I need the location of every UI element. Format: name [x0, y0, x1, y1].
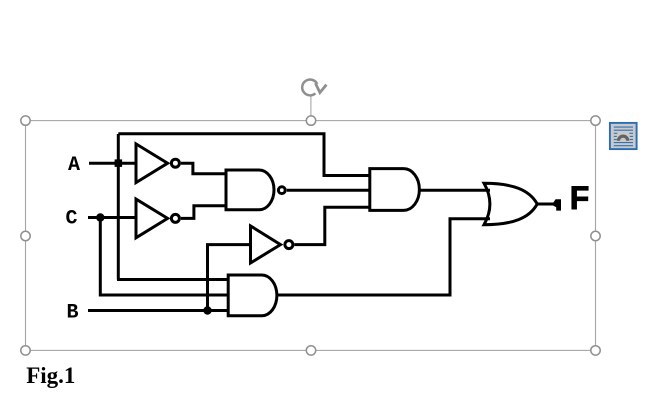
wire B branch to inverter U4 [208, 245, 252, 311]
selection handle top-left [21, 116, 30, 125]
wire B input [88, 309, 229, 312]
inverter U4 bubble [285, 241, 293, 249]
selection handle right-middle [591, 231, 600, 240]
wire U1 output to NAND U3 [181, 163, 227, 174]
wire U2 output to NAND U3 [181, 206, 227, 219]
inverter U4 [251, 226, 281, 263]
inverter U2 [136, 199, 168, 238]
inverter U2 bubble [171, 214, 179, 222]
wire U4 output to AND U5 [294, 207, 370, 244]
nand U3 [226, 170, 274, 210]
selection handle top-middle [306, 116, 315, 125]
selection handle left-middle [21, 231, 30, 240]
wire A top rail to AND U5 [118, 134, 370, 176]
and U5 [370, 169, 420, 211]
wire C branch to AND U6 [100, 218, 229, 296]
output arrowhead [553, 199, 561, 210]
junction B [203, 306, 211, 314]
selection handle top-right [591, 116, 600, 125]
wire A input [89, 162, 136, 165]
nand U3 bubble [278, 187, 285, 194]
wire A vertical branch [117, 134, 120, 280]
svg-text:C: C [66, 207, 78, 230]
wire U3 output to AND U5 [287, 189, 370, 192]
wire C input [88, 216, 136, 219]
wire U6 output to OR U7 [278, 219, 490, 295]
svg-text:Fig.1: Fig.1 [26, 363, 75, 388]
and U6 [228, 275, 277, 316]
selection handle bottom-middle [306, 346, 315, 355]
wire A branch to AND U6 [117, 278, 229, 281]
junction A [115, 159, 123, 167]
layout options button [610, 123, 637, 149]
selection handle bottom-right [591, 346, 600, 355]
selection frame [26, 121, 596, 351]
selection handle bottom-left [21, 346, 30, 355]
or U7 [484, 183, 537, 224]
svg-text:F: F [570, 180, 590, 216]
wire U5 output to OR U7 [420, 189, 490, 192]
rotate handle [302, 80, 326, 96]
junction C [96, 213, 104, 221]
wire output F [538, 203, 554, 206]
inverter U1 bubble [171, 159, 179, 167]
rotate handle stem [310, 97, 312, 117]
svg-text:A: A [68, 154, 80, 177]
svg-text:B: B [67, 301, 79, 324]
inverter U1 [136, 144, 168, 183]
